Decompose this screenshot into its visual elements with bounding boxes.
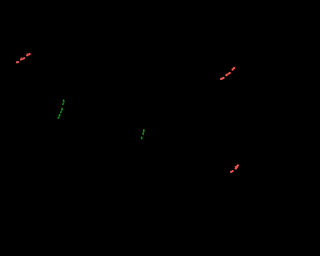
red label C word 2 <box>236 165 238 168</box>
green label A mid letter gap <box>60 110 62 113</box>
red label B word 1 <box>221 78 224 79</box>
red label A word 2 ascender bump <box>21 57 22 58</box>
green label B word 2 lower part <box>142 133 144 134</box>
green label B word 2 upper part <box>143 130 145 132</box>
red label A word 2 <box>21 58 24 59</box>
green label A char 3 <box>60 111 62 114</box>
red label C word 2 ascender bump <box>235 166 236 167</box>
green label A char 2 <box>58 115 60 116</box>
green label A char 4 <box>61 108 63 110</box>
red label A word 3 letter gap <box>28 54 29 56</box>
green label B word 1 <box>141 137 143 138</box>
red label A word 1 <box>17 61 18 63</box>
red label A word 3 ascender bump <box>27 53 28 54</box>
green label A char 1 <box>57 117 59 119</box>
red label B word 3 <box>233 68 235 70</box>
red label C word 1 <box>231 170 233 173</box>
red label B word 3 ascender bump <box>232 69 233 70</box>
red label A word 2 letter gap <box>22 58 23 60</box>
green label A char 6 <box>62 100 64 101</box>
red label B word 2 ascender bump <box>226 74 227 75</box>
red label A word 3 <box>27 54 30 55</box>
red label B word 2 <box>226 73 230 75</box>
red label B word 2 letter gap <box>227 73 229 75</box>
green label A char 5 <box>62 103 64 105</box>
